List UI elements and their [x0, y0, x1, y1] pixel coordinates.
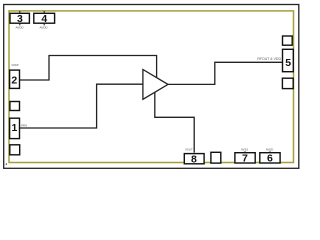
svg-text:1: 1	[11, 122, 17, 134]
unnumbered pad right upper	[283, 36, 293, 45]
svg-text:RFIN: RFIN	[21, 123, 27, 127]
unnumbered pad left upper	[10, 102, 20, 111]
op-amp U1	[143, 70, 168, 100]
pad 4	[34, 11, 55, 25]
svg-text:VOUT: VOUT	[185, 147, 193, 151]
wire net1: pad2 to U1 top input	[19, 56, 156, 81]
pad 3	[10, 11, 29, 25]
svg-text:AVSS: AVSS	[241, 147, 248, 151]
outer frame	[4, 5, 299, 169]
pad 5	[283, 49, 294, 71]
svg-text:RFOUT & VDD: RFOUT & VDD	[257, 57, 281, 61]
svg-text:4: 4	[41, 13, 47, 25]
svg-text:AVDD: AVDD	[15, 26, 24, 30]
svg-text:AVDD: AVDD	[266, 147, 274, 151]
pad 8	[184, 154, 204, 166]
svg-text:7: 7	[242, 153, 248, 165]
unnumbered pad bottom	[211, 152, 221, 163]
chip boundary (pad ring)	[9, 11, 294, 163]
corner mark	[6, 163, 7, 165]
wire net2: pad1 to U1 left input	[20, 84, 143, 128]
svg-text:5: 5	[285, 57, 291, 69]
wire net4: U1 bottom to pad8	[155, 92, 194, 152]
svg-text:8: 8	[191, 154, 197, 166]
pad 6	[260, 151, 280, 164]
unnumbered pad right lower	[282, 78, 293, 88]
wire net3: U1 output to pad5	[168, 62, 282, 84]
svg-text:VDDP: VDDP	[11, 63, 18, 67]
pad 2	[10, 70, 20, 88]
pad 1	[10, 118, 20, 138]
unnumbered pad left lower	[10, 145, 20, 155]
svg-text:AVDD: AVDD	[39, 26, 48, 30]
pad 7	[235, 151, 255, 164]
svg-text:6: 6	[267, 153, 273, 165]
svg-text:2: 2	[11, 74, 17, 86]
svg-text:3: 3	[17, 13, 23, 25]
